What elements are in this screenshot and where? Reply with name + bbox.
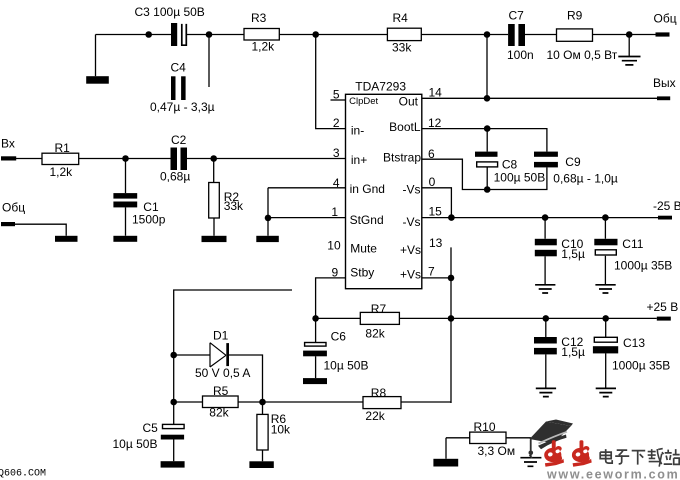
svg-text:12: 12: [428, 116, 442, 130]
svg-text:0: 0: [429, 175, 436, 189]
svg-text:ClpDet: ClpDet: [349, 96, 378, 107]
watermark CJK text zai: [648, 449, 664, 467]
node R9 ground tap: [626, 31, 633, 38]
svg-text:0,68µ: 0,68µ: [160, 170, 190, 184]
svg-text:100n: 100n: [507, 48, 534, 62]
ground C6 bar: [303, 378, 327, 384]
svg-text:22k: 22k: [365, 409, 385, 423]
svg-text:100µ 50В: 100µ 50В: [494, 171, 546, 185]
node pin8 rail: [448, 214, 455, 221]
node C11 rail: [602, 214, 609, 221]
svg-text:R10: R10: [474, 420, 496, 434]
node C13 rail: [602, 315, 609, 322]
capacitor C13: [593, 337, 618, 353]
wire Out net: [422, 97, 657, 99]
svg-text:1,5µ: 1,5µ: [561, 345, 585, 359]
wire C7 junction drop to Out: [486, 35, 488, 99]
wire pin9 stby branch: [316, 278, 346, 378]
svg-text:C4: C4: [171, 61, 187, 75]
wire D1 row: [174, 355, 263, 402]
terminal Obsch top: [656, 32, 670, 36]
resistor R6: [257, 414, 268, 450]
svg-text:1: 1: [331, 205, 338, 219]
svg-text:1,2k: 1,2k: [252, 40, 276, 54]
resistor R2: [209, 183, 220, 219]
wire +25V rail: [451, 317, 657, 319]
ground earth C10: [535, 285, 555, 293]
resistor R3: [244, 29, 279, 41]
svg-text:Stby: Stby: [350, 266, 374, 280]
svg-text:TDA7293: TDA7293: [355, 80, 406, 94]
resistor R1: [42, 153, 79, 164]
svg-text:13: 13: [429, 236, 443, 250]
ground pins41 bar: [256, 236, 279, 242]
watermark red bug 1: [544, 440, 564, 467]
svg-text:R5: R5: [213, 384, 229, 398]
capacitor C4: [171, 76, 186, 100]
capacitor C12: [534, 337, 557, 354]
svg-text:Обц: Обц: [654, 11, 677, 25]
svg-text:9: 9: [332, 266, 339, 280]
wire R9 right to earth: [628, 35, 630, 57]
resistor R7: [360, 312, 399, 324]
svg-text:C9: C9: [565, 155, 581, 169]
svg-text:+25 В: +25 В: [647, 300, 679, 314]
svg-text:C6: C6: [331, 330, 347, 344]
svg-text:1000µ 35В: 1000µ 35В: [612, 359, 670, 373]
watermark CJK text zi: [615, 450, 629, 464]
terminal Vh input: [1, 156, 16, 160]
svg-text:Out: Out: [399, 95, 419, 109]
svg-text:50 V 0,5 A: 50 V 0,5 A: [195, 366, 250, 380]
wire mute left branch: [174, 290, 292, 461]
terminal +25V: [657, 317, 671, 321]
svg-text:R8: R8: [371, 386, 387, 400]
wire pin5 stub: [331, 99, 346, 101]
node R1-C1: [122, 155, 129, 162]
svg-text:-Vs: -Vs: [403, 215, 421, 229]
node C10 rail: [542, 214, 549, 221]
svg-text:in-: in-: [351, 124, 364, 138]
svg-text:2: 2: [333, 116, 340, 130]
svg-text:0,47µ - 3,3µ: 0,47µ - 3,3µ: [150, 100, 215, 114]
wire C12 branch: [545, 318, 547, 388]
node C2-R2: [210, 155, 217, 162]
svg-text:C8: C8: [502, 158, 518, 172]
node pin1 gnd: [265, 215, 272, 222]
capacitor C9: [534, 152, 558, 168]
capacitor C5: [161, 424, 184, 439]
node C8 bottom: [484, 186, 491, 193]
svg-text:in Gnd: in Gnd: [350, 182, 385, 196]
svg-text:C13: C13: [623, 336, 645, 350]
wire C10 branch: [544, 218, 546, 285]
wire R5 leads: [174, 401, 263, 403]
svg-text:www.eeworm.com: www.eeworm.com: [546, 468, 679, 480]
node R5 right R6: [259, 399, 266, 406]
ground earth R9: [618, 57, 640, 65]
wire top net left: [96, 34, 656, 36]
capacitor C10: [535, 239, 557, 256]
wire C8 drops: [486, 129, 488, 190]
node R3-R4: [312, 31, 319, 38]
svg-text:C5: C5: [143, 421, 159, 435]
node stby R7: [312, 315, 319, 322]
svg-text:0,68µ - 1,0µ: 0,68µ - 1,0µ: [553, 172, 618, 186]
capacitor C3: [171, 23, 186, 46]
svg-text:C7: C7: [509, 8, 525, 22]
wire pin13 vertical: [450, 247, 452, 403]
svg-text:1,5µ: 1,5µ: [561, 247, 585, 261]
wire input net: [16, 158, 346, 160]
capacitor C2: [171, 148, 188, 171]
node after C3: [206, 31, 213, 38]
svg-text:10: 10: [327, 239, 341, 253]
svg-text:+Vs: +Vs: [400, 268, 421, 282]
resistor R4: [387, 28, 421, 40]
wire R2 branch: [213, 159, 215, 236]
svg-text:15: 15: [429, 205, 443, 219]
terminal Vyh: [657, 96, 670, 100]
svg-text:R9: R9: [567, 8, 583, 22]
svg-text:R1: R1: [55, 141, 71, 155]
node C8 top: [484, 125, 491, 132]
ground R10 bar: [433, 459, 458, 467]
svg-text:Mute: Mute: [350, 242, 377, 256]
svg-text:R4: R4: [393, 11, 409, 25]
svg-text:Вх: Вх: [1, 137, 15, 151]
ground earth C11: [595, 285, 615, 293]
svg-text:-25 В: -25 В: [653, 199, 680, 213]
op-amp IC U1 TDA7293 body: [346, 94, 422, 288]
ground obsch-in bar: [55, 236, 78, 242]
svg-text:BootL: BootL: [389, 120, 421, 134]
wire R8 leads: [263, 401, 452, 403]
svg-text:10 Ом 0,5 Вт: 10 Ом 0,5 Вт: [547, 48, 618, 62]
node C7 tap: [484, 31, 491, 38]
ground C5 bar: [161, 461, 185, 467]
resistor R9: [557, 29, 593, 41]
node top isolated: [145, 31, 152, 38]
capacitor C7: [508, 24, 525, 46]
svg-text:3: 3: [333, 146, 340, 160]
svg-text:33k: 33k: [224, 199, 244, 213]
svg-text:Вых: Вых: [653, 76, 676, 90]
svg-text:StGnd: StGnd: [350, 213, 384, 227]
watermark CJK text dian: [600, 449, 612, 463]
svg-text:1000µ 35В: 1000µ 35В: [614, 259, 672, 273]
svg-text:1500p: 1500p: [132, 213, 166, 227]
svg-text:Btstrap: Btstrap: [383, 151, 421, 165]
wire pin8 to -Vs rail: [422, 188, 452, 218]
wire R7 leads: [316, 317, 451, 319]
resistor R8: [363, 397, 401, 409]
node C12 rail: [543, 315, 550, 322]
wire R6 leads: [262, 402, 264, 461]
wire C13 branch: [605, 318, 607, 388]
capacitor C11: [594, 239, 617, 255]
svg-text:C3 100µ 50В: C3 100µ 50В: [135, 5, 205, 19]
watermark CJK text zhan: [664, 449, 680, 464]
wire top-left drop to ground: [95, 35, 97, 77]
svg-text:1,2k: 1,2k: [50, 165, 74, 179]
terminal -25V: [658, 216, 672, 220]
wire pin4 pin1 gnd net: [268, 188, 346, 236]
svg-text:R3: R3: [251, 11, 267, 25]
svg-text:6: 6: [428, 147, 435, 161]
wire pin6 bootstrap loop: [422, 159, 547, 189]
svg-text:C11: C11: [622, 237, 643, 251]
node D1 left: [170, 352, 177, 359]
ground earth C12: [536, 388, 556, 396]
svg-text:-Vs: -Vs: [403, 183, 421, 197]
wire junction to pin2: [316, 35, 346, 129]
svg-text:Обц: Обц: [2, 201, 25, 215]
svg-text:10µ 50В: 10µ 50В: [324, 359, 369, 373]
terminal Obsch left: [1, 222, 15, 226]
svg-text:D1: D1: [213, 328, 229, 342]
ground R6 bar: [249, 461, 273, 468]
wire R10 leads: [446, 438, 531, 459]
watermark CJK text xia: [632, 451, 646, 465]
node pin7: [448, 275, 455, 282]
wire pin12 to C9: [422, 129, 547, 152]
node R7 +25 rail: [448, 315, 455, 322]
ground R2 bar: [202, 236, 227, 242]
wire C4 stub: [208, 35, 210, 88]
resistor R10: [470, 432, 506, 443]
node R5 left: [170, 399, 177, 406]
svg-text:82k: 82k: [209, 406, 229, 420]
ground earth C13: [596, 388, 616, 396]
wire C1 branch: [125, 159, 127, 236]
svg-text:5: 5: [333, 88, 340, 102]
svg-text:+Vs: +Vs: [400, 243, 421, 257]
resistor R5: [203, 396, 239, 408]
ground top-left bar: [86, 76, 109, 84]
watermark graduation cap: [529, 420, 574, 459]
svg-text:33k: 33k: [392, 41, 412, 55]
svg-text:7: 7: [428, 264, 435, 278]
diode D1: [210, 343, 229, 367]
ground C1 bar: [113, 236, 137, 242]
wire obsch input to ground: [15, 224, 66, 236]
svg-text:14: 14: [429, 86, 443, 100]
svg-text:10µ 50В: 10µ 50В: [113, 437, 158, 451]
wire -25V rail: [422, 217, 658, 219]
capacitor C6: [303, 343, 327, 357]
svg-text:in+: in+: [351, 153, 367, 167]
svg-text:3,3 Ом: 3,3 Ом: [478, 444, 516, 458]
wire C11 branch: [604, 218, 606, 285]
wire pin7 stub: [422, 277, 451, 279]
watermark red bug 2: [572, 440, 592, 467]
svg-text:10k: 10k: [271, 423, 291, 437]
svg-text:Q606.COM: Q606.COM: [0, 469, 46, 480]
svg-text:R7: R7: [371, 302, 387, 316]
ground earth R10: [520, 458, 541, 467]
node out tap: [484, 95, 491, 102]
capacitor C8: [475, 152, 498, 167]
svg-text:4: 4: [333, 176, 340, 190]
svg-text:C2: C2: [171, 133, 187, 147]
svg-text:82k: 82k: [365, 327, 385, 341]
capacitor C1: [113, 193, 137, 207]
